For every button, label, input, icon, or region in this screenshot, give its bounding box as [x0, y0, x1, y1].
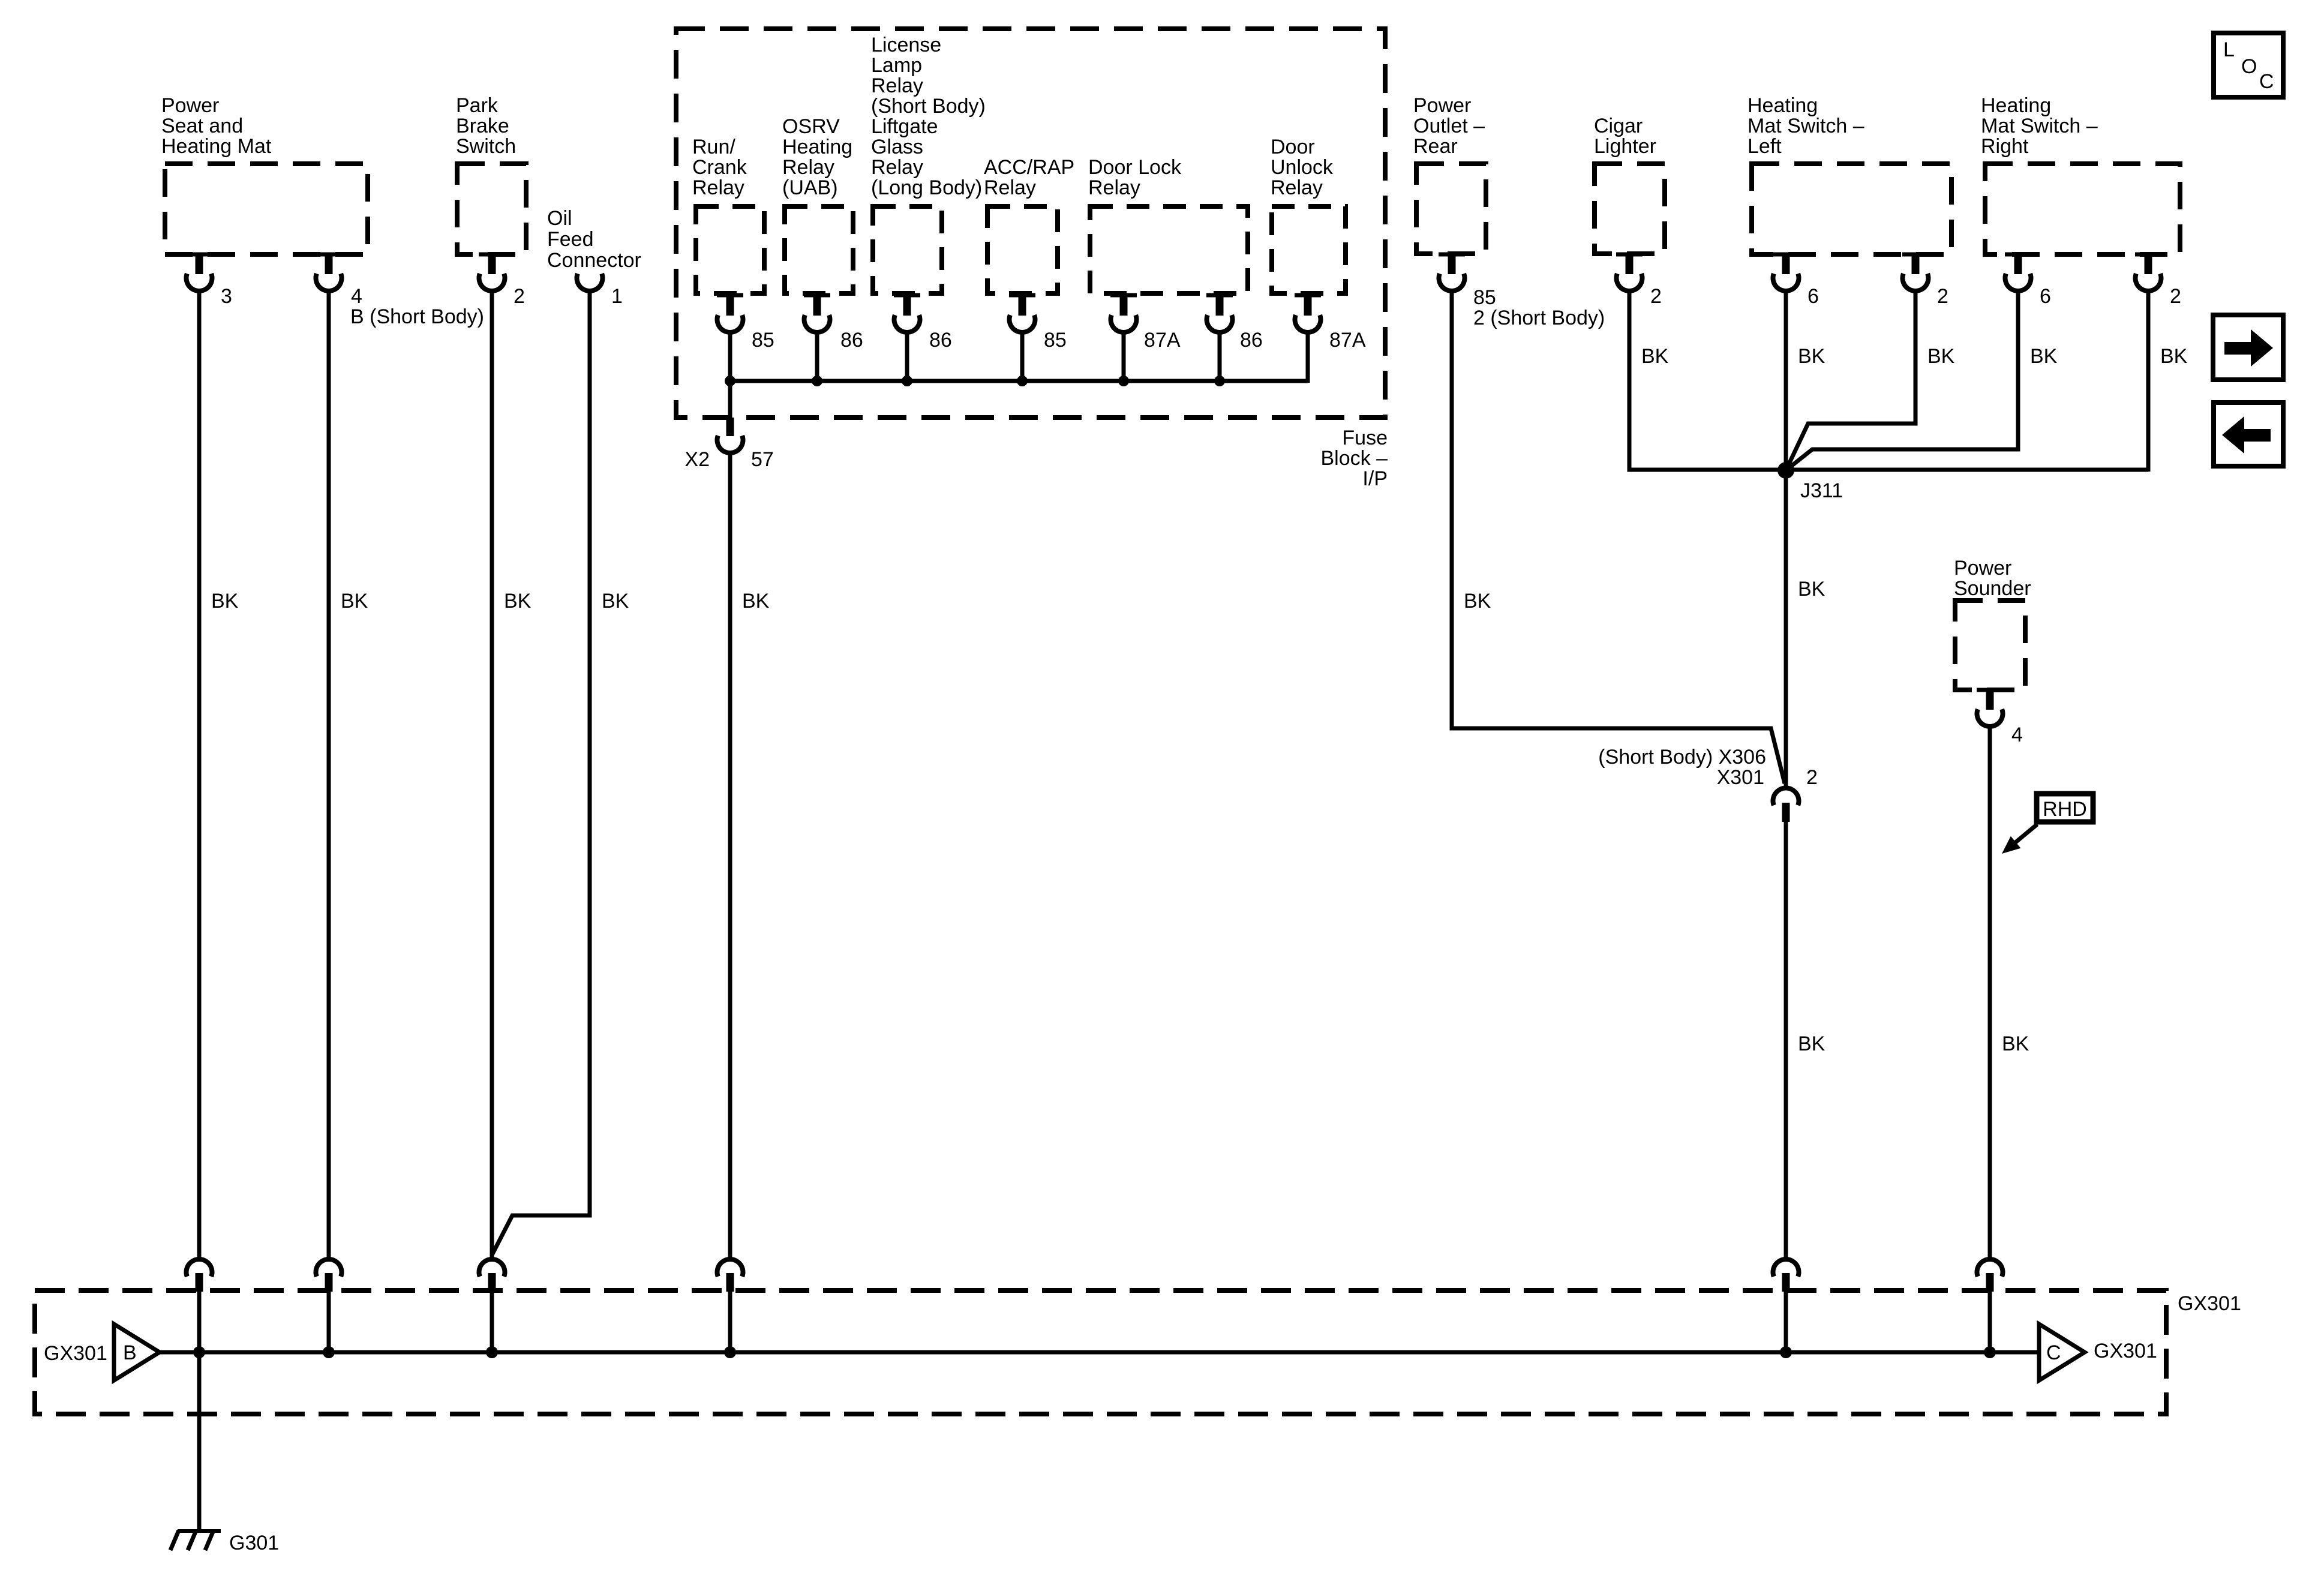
- svg-text:Relay: Relay: [692, 176, 744, 199]
- svg-text:Block –: Block –: [1321, 447, 1388, 470]
- pin 2 of Park Brake Switch: [479, 253, 525, 308]
- junction dot bus x1873: [1118, 376, 1129, 386]
- ground symbol G301: [170, 1530, 279, 1554]
- component box Power Seat and Heating Mat: [161, 94, 368, 254]
- relay OSRV Heating label: [782, 115, 852, 199]
- wire pin86 License to bus: [905, 332, 909, 381]
- junction dot ground bus x2977: [1780, 1346, 1792, 1358]
- connector X301 X306 inline: [1598, 746, 1818, 822]
- svg-text:BK: BK: [742, 590, 770, 613]
- connector GX301 entry x1217: [717, 1259, 743, 1292]
- svg-text:BK: BK: [1798, 345, 1825, 368]
- pin 1 Oil Feed Connector: [577, 274, 623, 308]
- junction dot bus x1362: [812, 376, 822, 386]
- junction J311: [1777, 462, 1843, 502]
- relay OSRV Heating box: [785, 206, 853, 293]
- svg-text:Heating Mat: Heating Mat: [161, 135, 272, 158]
- svg-text:86: 86: [840, 329, 863, 352]
- wire x548 connector to bus: [327, 1292, 331, 1354]
- svg-text:OSRV: OSRV: [782, 115, 840, 138]
- svg-text:Seat and: Seat and: [161, 115, 243, 137]
- component box Power Sounder: [1954, 557, 2031, 690]
- connector GX301 entry x820: [479, 1259, 505, 1292]
- wire x332 connector to bus: [197, 1292, 202, 1352]
- GX301 dashed box: [35, 1290, 2241, 1414]
- svg-text:85: 85: [752, 329, 774, 352]
- relay ACC/RAP label: [984, 156, 1074, 199]
- wire pin87A DoorUnlock to bus: [1306, 332, 1310, 383]
- arrow right legend box: [2213, 315, 2283, 380]
- svg-text:2: 2: [2170, 285, 2181, 308]
- svg-text:Fuse: Fuse: [1342, 427, 1388, 449]
- svg-text:Connector: Connector: [547, 249, 641, 272]
- svg-text:BK: BK: [1927, 345, 1955, 368]
- svg-text:86: 86: [929, 329, 952, 352]
- svg-text:Park: Park: [456, 94, 499, 117]
- svg-text:I/P: I/P: [1362, 467, 1388, 490]
- wire pin87A DoorLock to bus: [1122, 332, 1126, 381]
- svg-text:(Short Body) X306: (Short Body) X306: [1598, 746, 1766, 769]
- component box Heating Mat Switch Right: [1981, 94, 2180, 254]
- connector GX301 entry x3317: [1977, 1259, 2003, 1292]
- svg-text:85: 85: [1044, 329, 1067, 352]
- svg-text:GX301: GX301: [2094, 1340, 2157, 1362]
- pin 3 of Power Seat and Heating Mat: [186, 253, 232, 308]
- svg-text:Crank: Crank: [692, 156, 747, 179]
- wire BK from park brake pin 2 to GX301: [492, 290, 532, 1258]
- wire pin85 RunCrank to bus: [728, 332, 732, 383]
- svg-text:BK: BK: [2030, 345, 2058, 368]
- svg-text:2: 2: [1806, 766, 1818, 789]
- svg-text:87A: 87A: [1329, 329, 1366, 352]
- component box Park Brake Switch: [456, 94, 526, 254]
- pin 6 Heating Mat Switch Left: [1773, 253, 1819, 308]
- svg-text:6: 6: [1807, 285, 1819, 308]
- wire pin86 OSRV to bus: [815, 332, 819, 381]
- junction dot bus x1512: [902, 376, 912, 386]
- pin 87A Door Unlock relay: [1295, 293, 1366, 352]
- fuse block I/P dashed box: [676, 29, 1388, 490]
- pin 2 Heating Mat Switch Left: [1902, 253, 1948, 308]
- wire x820 connector to bus: [490, 1292, 494, 1354]
- wire x3317 connector to bus: [1988, 1292, 1992, 1354]
- svg-text:1: 1: [611, 285, 623, 308]
- svg-text:2: 2: [1650, 285, 1662, 308]
- svg-text:Oil: Oil: [547, 207, 572, 230]
- svg-text:GX301: GX301: [2178, 1292, 2241, 1315]
- junction dot ground bus x1217: [724, 1346, 736, 1358]
- pin 6 Heating Mat Switch Right: [2005, 253, 2051, 308]
- svg-text:Relay: Relay: [871, 156, 923, 179]
- pin 85 Run/Crank relay: [717, 293, 774, 352]
- pin 85 Power Outlet Rear: [1439, 253, 1605, 330]
- svg-text:87A: 87A: [1144, 329, 1181, 352]
- svg-text:57: 57: [751, 448, 774, 471]
- svg-text:License: License: [871, 34, 941, 56]
- svg-text:Power: Power: [161, 94, 219, 117]
- svg-text:Right: Right: [1981, 135, 2029, 158]
- svg-text:X2: X2: [684, 448, 710, 471]
- svg-text:Heating: Heating: [1981, 94, 2051, 117]
- wire bus to ground G301: [197, 1352, 202, 1531]
- svg-text:BK: BK: [211, 590, 239, 613]
- svg-text:J311: J311: [1800, 479, 1843, 502]
- wire BK heat mat right pin6 to J311: [1786, 290, 2058, 470]
- svg-text:Left: Left: [1747, 135, 1782, 158]
- svg-text:ACC/RAP: ACC/RAP: [984, 156, 1074, 179]
- svg-text:Relay: Relay: [1271, 176, 1323, 199]
- fuse block internal bus: [730, 379, 1308, 383]
- relay Door Unlock label: [1271, 136, 1334, 199]
- svg-text:BK: BK: [602, 590, 629, 613]
- wire BK power outlet to X301: [1452, 290, 1785, 784]
- svg-text:Door Lock: Door Lock: [1088, 156, 1182, 179]
- svg-text:C: C: [2259, 70, 2274, 93]
- pin 2 Heating Mat Switch Right: [2135, 253, 2181, 308]
- svg-text:RHD: RHD: [2043, 798, 2087, 821]
- svg-text:Outlet –: Outlet –: [1413, 115, 1485, 137]
- wire bus down to fuse block edge: [728, 381, 732, 418]
- wire BK X301 to GX301: [1786, 822, 1825, 1258]
- LOC legend box: [2214, 33, 2283, 97]
- relay Door Lock box: [1090, 206, 1248, 293]
- svg-text:BK: BK: [2002, 1032, 2029, 1055]
- svg-text:86: 86: [1240, 329, 1263, 352]
- svg-text:O: O: [2241, 55, 2257, 78]
- arrow left legend box: [2214, 403, 2283, 466]
- connector GX301 entry x332: [186, 1259, 212, 1292]
- svg-text:85: 85: [1473, 286, 1496, 309]
- wire BK heat mat left pin2 to J311: [1786, 290, 1955, 470]
- svg-text:Power: Power: [1413, 94, 1471, 117]
- svg-text:X301: X301: [1717, 766, 1764, 789]
- wire BK from pin 4 to GX301: [329, 290, 368, 1258]
- svg-text:(Short Body): (Short Body): [871, 95, 986, 118]
- component box Cigar Lighter: [1594, 115, 1665, 254]
- relay Run/Crank box: [696, 206, 764, 293]
- relay License Lamp / Liftgate Glass label: [871, 34, 986, 199]
- oil feed connector label: [547, 207, 641, 272]
- junction dot ground bus x548: [323, 1346, 335, 1358]
- svg-text:BK: BK: [1798, 1032, 1825, 1055]
- wire x2977 connector to bus: [1784, 1292, 1788, 1354]
- pin 86 OSRV relay: [804, 293, 863, 352]
- svg-text:BK: BK: [2160, 345, 2188, 368]
- svg-text:BK: BK: [1464, 590, 1491, 613]
- connector GX301 entry x548: [316, 1259, 342, 1292]
- junction dot ground bus x820: [486, 1346, 498, 1358]
- svg-text:(UAB): (UAB): [782, 176, 838, 199]
- component box Power Outlet Rear: [1413, 94, 1486, 254]
- svg-text:Mat Switch –: Mat Switch –: [1747, 115, 1864, 137]
- wire BK from X2 57 to GX301: [730, 452, 770, 1258]
- svg-text:Unlock: Unlock: [1271, 156, 1334, 179]
- pin 4 Power Sounder: [1977, 688, 2023, 747]
- svg-text:Mat Switch –: Mat Switch –: [1981, 115, 2098, 137]
- connector X2 57 below fuse block: [684, 418, 773, 471]
- svg-text:(Long Body): (Long Body): [871, 176, 982, 199]
- svg-text:BK: BK: [504, 590, 532, 613]
- RHD flag: [2002, 794, 2093, 854]
- svg-text:2: 2: [514, 285, 525, 308]
- svg-text:G301: G301: [229, 1532, 279, 1554]
- pin 87A Door Lock relay: [1110, 293, 1181, 352]
- svg-text:Glass: Glass: [871, 136, 923, 158]
- wire BK heat mat right pin2 to J311: [2148, 290, 2188, 472]
- terminal B triangle GX301: [44, 1324, 160, 1380]
- svg-text:Feed: Feed: [547, 228, 594, 251]
- svg-text:L: L: [2223, 38, 2235, 61]
- svg-text:Power: Power: [1954, 557, 2011, 580]
- component box Heating Mat Switch Left: [1747, 94, 1951, 254]
- relay ACC/RAP box: [987, 206, 1058, 293]
- svg-text:Lighter: Lighter: [1594, 135, 1656, 158]
- wire BK cigar lighter to J311: [1629, 290, 2148, 470]
- relay Run/Crank label: [692, 136, 747, 199]
- svg-text:4: 4: [2011, 724, 2023, 746]
- svg-text:BK: BK: [341, 590, 368, 613]
- svg-text:3: 3: [221, 285, 232, 308]
- svg-text:B: B: [123, 1341, 137, 1364]
- pin 85 ACC/RAP relay: [1009, 293, 1067, 352]
- svg-text:Cigar: Cigar: [1594, 115, 1643, 137]
- wire pin86 DoorLock to bus: [1218, 332, 1222, 381]
- svg-text:BK: BK: [1641, 345, 1669, 368]
- svg-text:Relay: Relay: [984, 176, 1036, 199]
- svg-text:C: C: [2046, 1341, 2061, 1364]
- pin 4 of Power Seat and Heating Mat: [316, 253, 484, 329]
- pin 2 Cigar Lighter: [1616, 253, 1662, 308]
- svg-text:4: 4: [351, 285, 362, 308]
- junction dot ground bus x332: [193, 1346, 205, 1358]
- wire BK J311 to connector X301: [1798, 578, 1825, 601]
- svg-text:B (Short Body): B (Short Body): [350, 305, 484, 328]
- svg-text:Relay: Relay: [782, 156, 834, 179]
- svg-text:Door: Door: [1271, 136, 1315, 158]
- svg-text:Lamp: Lamp: [871, 54, 922, 77]
- relay License/Liftgate box: [873, 206, 942, 293]
- connector GX301 entry x2977: [1773, 1259, 1799, 1292]
- ground bus GX301: [158, 1350, 2041, 1355]
- svg-text:Run/: Run/: [692, 136, 735, 158]
- svg-text:2: 2: [1937, 285, 1948, 308]
- wire BK from oil feed pin 1: [492, 290, 629, 1255]
- relay Door Unlock box: [1272, 206, 1346, 293]
- junction dot bus x1217: [725, 376, 735, 386]
- svg-text:BK: BK: [1798, 578, 1825, 601]
- wire BK power sounder to GX301: [1990, 727, 2029, 1258]
- svg-text:GX301: GX301: [44, 1342, 107, 1365]
- svg-text:Heating: Heating: [1747, 94, 1818, 117]
- svg-text:2 (Short Body): 2 (Short Body): [1473, 307, 1605, 329]
- svg-text:Relay: Relay: [1088, 176, 1140, 199]
- svg-text:6: 6: [2040, 285, 2051, 308]
- junction dot ground bus x3317: [1984, 1346, 1996, 1358]
- terminal C triangle GX301: [2039, 1324, 2157, 1380]
- wire x1217 connector to bus: [728, 1292, 732, 1354]
- svg-text:Liftgate: Liftgate: [871, 115, 938, 138]
- svg-text:Rear: Rear: [1413, 135, 1458, 158]
- svg-text:Sounder: Sounder: [1954, 577, 2031, 600]
- svg-text:Heating: Heating: [782, 136, 852, 158]
- junction dot bus x1704: [1017, 376, 1028, 386]
- wire BK heat mat left pin6 to J311: [1786, 290, 1825, 787]
- wire BK from pin 3 to GX301: [199, 290, 239, 1258]
- svg-text:Brake: Brake: [456, 115, 509, 137]
- wire pin85 ACCRAP to bus: [1020, 332, 1025, 381]
- svg-text:Relay: Relay: [871, 74, 923, 97]
- svg-text:Switch: Switch: [456, 135, 516, 158]
- pin 86 License/Liftgate relay: [894, 293, 952, 352]
- relay Door Lock label: [1088, 156, 1182, 199]
- pin 86 Door Lock relay: [1206, 293, 1263, 352]
- junction dot bus x2033: [1214, 376, 1225, 386]
